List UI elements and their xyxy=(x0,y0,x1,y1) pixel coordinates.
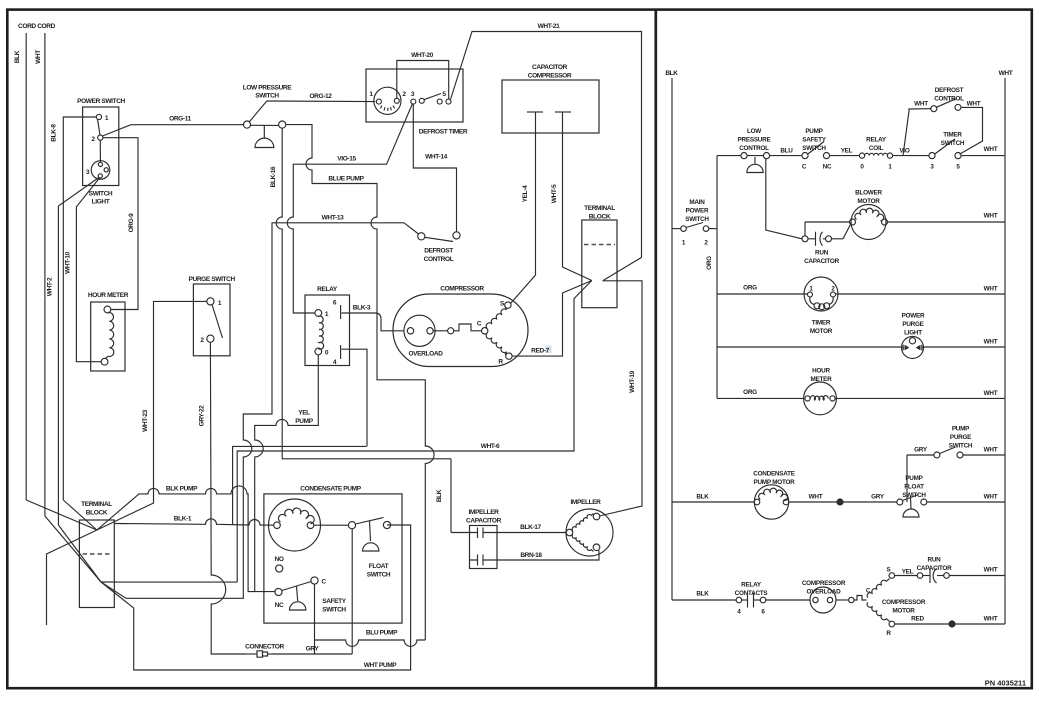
connector symbol xyxy=(246,651,272,657)
purge switch S4 box xyxy=(193,284,230,356)
wire BLK-17 xyxy=(497,532,566,534)
svg-text:BLK-8: BLK-8 xyxy=(51,124,58,142)
svg-text:DEFROST: DEFROST xyxy=(424,248,453,255)
wire BRN-18 xyxy=(497,551,599,561)
terminal block left box xyxy=(79,520,114,608)
svg-text:FLOAT: FLOAT xyxy=(904,484,924,491)
wire WHT-19 xyxy=(600,281,643,516)
power switch U1 box xyxy=(83,107,119,186)
float switch right terminal xyxy=(383,521,390,528)
safety switch bell xyxy=(297,586,298,601)
svg-text:C: C xyxy=(802,164,807,171)
wire BLUE PUMP xyxy=(312,184,434,641)
svg-text:TIMER: TIMER xyxy=(812,320,831,327)
svg-text:ORG: ORG xyxy=(743,285,757,292)
svg-text:BLK-1: BLK-1 xyxy=(174,516,192,523)
svg-text:WHT: WHT xyxy=(914,101,928,108)
wire hour meter rung left xyxy=(717,397,804,399)
wire condensate rung left xyxy=(672,501,754,503)
svg-text:WHT-19: WHT-19 xyxy=(629,370,636,392)
svg-text:BLUE PUMP: BLUE PUMP xyxy=(328,176,364,183)
svg-text:SWITCH: SWITCH xyxy=(322,607,346,614)
svg-text:CORD CORD: CORD CORD xyxy=(18,23,56,30)
svg-text:RELAY: RELAY xyxy=(317,286,338,293)
hour meter M12 xyxy=(804,382,837,415)
low pressure switch S2 xyxy=(243,101,285,148)
wire ORG-12 xyxy=(267,100,376,103)
wire timer motor rung right xyxy=(836,293,1006,295)
blower motor M10 xyxy=(850,205,888,240)
svg-text:RED: RED xyxy=(911,616,924,623)
svg-text:LIGHT: LIGHT xyxy=(904,330,922,337)
hour meter coil xyxy=(101,306,114,365)
svg-text:DEFROST TIMER: DEFROST TIMER xyxy=(419,129,468,136)
svg-text:ORG: ORG xyxy=(743,389,757,396)
svg-text:CONDENSATE: CONDENSATE xyxy=(753,471,794,478)
purge switch blade xyxy=(212,305,223,339)
power switch blade xyxy=(98,119,101,135)
wire from low pressure switch to BLUE PUMP riser xyxy=(286,125,312,184)
timer contact movable xyxy=(419,98,424,103)
svg-text:BLK-3: BLK-3 xyxy=(353,305,371,312)
wire WHT-20 bracket pin2 to pin5 xyxy=(397,61,449,100)
wire contacts to overload xyxy=(766,599,810,601)
svg-text:BLK PUMP: BLK PUMP xyxy=(166,486,198,493)
compressor common C xyxy=(482,328,488,334)
float switch bell xyxy=(370,521,371,542)
wire ORG-11 xyxy=(103,125,245,136)
wire BLK cord diagonal into node P3 xyxy=(26,500,97,530)
svg-text:PRESSURE: PRESSURE xyxy=(738,137,771,144)
svg-text:SWITCH: SWITCH xyxy=(941,140,965,147)
svg-text:SWITCH: SWITCH xyxy=(367,572,391,579)
wire WHT-2 diagonal into node P4 xyxy=(58,525,101,582)
svg-text:CAPACITOR: CAPACITOR xyxy=(804,258,840,265)
svg-text:SAFETY: SAFETY xyxy=(802,137,827,144)
svg-text:LOW: LOW xyxy=(747,128,761,135)
junction dot xyxy=(836,498,843,505)
purge switch pin 2 xyxy=(207,335,214,342)
svg-text:WHT: WHT xyxy=(984,447,998,454)
svg-text:OVERLOAD: OVERLOAD xyxy=(408,351,443,358)
compressor jog xyxy=(454,324,482,331)
relay coil xyxy=(318,316,323,349)
svg-text:BLOCK: BLOCK xyxy=(86,510,108,517)
svg-text:OVERLOAD: OVERLOAD xyxy=(807,589,842,596)
hour meter M1 box xyxy=(91,302,125,371)
wire WHT cord diagonal into node P4 xyxy=(45,516,101,582)
svg-text:C: C xyxy=(477,321,482,328)
svg-text:PUMP: PUMP xyxy=(952,426,970,433)
svg-text:SWITCH: SWITCH xyxy=(255,93,279,100)
svg-text:HOUR: HOUR xyxy=(812,368,830,375)
condensate pump motor xyxy=(269,499,321,551)
wire hour meter rung right xyxy=(835,397,1005,399)
wire purge riser xyxy=(906,455,908,502)
defrost control branch S13 xyxy=(903,99,983,156)
svg-text:RUN: RUN xyxy=(815,250,829,257)
main power switch S10 xyxy=(672,223,717,232)
defrost control switch S3 xyxy=(404,223,460,242)
wire blower to WHT rail xyxy=(888,221,1006,223)
svg-text:NO: NO xyxy=(274,556,283,563)
svg-text:WHT: WHT xyxy=(984,286,998,293)
svg-text:PUMP: PUMP xyxy=(805,128,823,135)
svg-text:WHT: WHT xyxy=(984,494,998,501)
wire rung1 VIO segment xyxy=(893,155,929,157)
wire BLK riser to impeller capacitor xyxy=(450,459,452,533)
wire GRY connector line xyxy=(272,653,353,655)
svg-text:WHT: WHT xyxy=(984,390,998,397)
svg-text:ORG: ORG xyxy=(706,256,713,270)
power switch pin 2 xyxy=(98,135,103,140)
svg-text:METER: METER xyxy=(811,376,833,383)
terminal NC xyxy=(275,588,282,595)
wire condensate rung middle xyxy=(789,501,897,503)
svg-text:BLK: BLK xyxy=(696,494,709,501)
terminal NO xyxy=(276,565,283,572)
svg-text:YEL: YEL xyxy=(902,569,914,576)
wire WHT-10 from lamp to hour meter xyxy=(76,178,101,362)
power purge light DS1 xyxy=(902,337,924,359)
svg-text:WHT-6: WHT-6 xyxy=(481,443,500,450)
svg-text:CONTACTS: CONTACTS xyxy=(735,590,768,597)
svg-text:WHT-13: WHT-13 xyxy=(322,215,344,222)
wire WHT right rail xyxy=(1004,78,1006,624)
svg-text:FLOAT: FLOAT xyxy=(369,563,389,570)
svg-text:RED-7: RED-7 xyxy=(531,348,549,355)
impeller capacitor lower element xyxy=(470,555,498,566)
svg-text:POWER: POWER xyxy=(902,313,925,320)
wire float-left down inside box xyxy=(351,529,353,654)
compressor overload xyxy=(810,587,836,613)
wire compressor rung left xyxy=(672,599,736,601)
blower run capacitor xyxy=(802,222,843,246)
compressor run winding R xyxy=(867,602,890,621)
wire C terminal to GRY line xyxy=(314,584,316,654)
impeller capacitor box xyxy=(470,526,498,569)
svg-text:BLU PUMP: BLU PUMP xyxy=(366,630,398,637)
switch light lamp xyxy=(91,161,110,180)
svg-text:CAPACITOR: CAPACITOR xyxy=(917,565,953,572)
compressor body oval xyxy=(393,294,528,367)
defrost timer T1 box xyxy=(366,69,463,122)
svg-text:BRN-18: BRN-18 xyxy=(520,552,542,559)
timer contact pins 5 xyxy=(437,99,442,104)
svg-text:TIMER: TIMER xyxy=(943,132,962,139)
compressor start winding S xyxy=(867,579,890,598)
wire BLK left rail xyxy=(671,78,673,600)
compressor run winding to R xyxy=(486,333,506,355)
wire WHT-6 xyxy=(237,281,592,583)
svg-text:BLK: BLK xyxy=(436,489,443,502)
wire overload to C xyxy=(836,599,849,601)
svg-text:R: R xyxy=(498,359,503,366)
wire BLU PUMP xyxy=(315,640,426,646)
timer switch S14 xyxy=(929,139,961,159)
svg-text:COMPRESSOR: COMPRESSOR xyxy=(440,286,484,293)
svg-text:WHT: WHT xyxy=(984,567,998,574)
svg-text:R: R xyxy=(886,630,891,637)
svg-text:MOTOR: MOTOR xyxy=(810,328,833,335)
wire WHT-13 xyxy=(101,223,404,599)
svg-text:S: S xyxy=(887,567,891,574)
svg-text:CONTROL: CONTROL xyxy=(739,145,769,152)
timer motor M11 xyxy=(804,277,838,311)
svg-text:GRY: GRY xyxy=(306,646,320,653)
wire BLK-8 diagonal into node P3 xyxy=(63,500,97,530)
junction dot R branch xyxy=(948,620,955,627)
svg-text:CONNECTOR: CONNECTOR xyxy=(245,644,284,651)
wire cap to blower motor xyxy=(843,223,852,239)
overload circle xyxy=(404,315,435,346)
svg-text:COMPRESSOR: COMPRESSOR xyxy=(528,73,572,80)
svg-text:BLK: BLK xyxy=(696,591,709,598)
wire P4 to WHT-6 riser xyxy=(101,581,237,583)
svg-text:MOTOR: MOTOR xyxy=(892,608,915,615)
svg-text:C: C xyxy=(321,579,326,586)
svg-text:WHT-5: WHT-5 xyxy=(551,184,558,203)
purge switch pin 1 xyxy=(207,298,214,305)
wire WHT cord xyxy=(44,33,46,516)
wire WHT-23 xyxy=(97,301,207,530)
svg-text:WHT-23: WHT-23 xyxy=(142,409,149,431)
svg-text:POWER SWITCH: POWER SWITCH xyxy=(77,98,125,105)
pump safety switch S12 xyxy=(802,142,830,159)
wire R branch RED xyxy=(895,623,1005,625)
svg-text:COMPRESSOR: COMPRESSOR xyxy=(802,580,846,587)
terminal block left dashed line xyxy=(83,553,112,555)
svg-text:SAFETY: SAFETY xyxy=(322,598,347,605)
svg-text:RELAY: RELAY xyxy=(741,582,762,589)
terminal block right box xyxy=(582,220,617,308)
pump purge switch S15 xyxy=(907,447,1005,458)
label RED-7 with highlight xyxy=(546,346,552,354)
svg-text:WHT: WHT xyxy=(35,50,42,64)
wire motor to float switch xyxy=(314,524,349,526)
svg-text:ORG-11: ORG-11 xyxy=(169,116,191,123)
relay pin 0 xyxy=(315,348,322,355)
svg-text:HOUR METER: HOUR METER xyxy=(88,292,129,299)
svg-text:SWITCH: SWITCH xyxy=(902,492,926,499)
svg-text:WHT: WHT xyxy=(984,146,998,153)
wire RED-7 xyxy=(512,281,592,357)
wire BLK-8 xyxy=(63,117,96,500)
svg-text:YEL: YEL xyxy=(298,410,310,417)
svg-text:WHT-20: WHT-20 xyxy=(411,52,433,59)
wire WHT-21 xyxy=(451,32,642,281)
svg-text:BLK: BLK xyxy=(14,50,21,63)
timer contact pin 3 xyxy=(411,99,416,104)
wire condensate rung right xyxy=(927,501,1005,503)
svg-text:CONTROL: CONTROL xyxy=(424,256,454,263)
float switch left terminal xyxy=(348,522,355,529)
svg-text:IMPELLER: IMPELLER xyxy=(468,509,499,516)
svg-text:YEL-4: YEL-4 xyxy=(522,185,529,202)
capacitor compressor C1 box xyxy=(502,80,599,133)
wire H1 riser from BLK-1 up and over to WHT-6 xyxy=(233,446,367,525)
wire BLU node down to run capacitor xyxy=(766,159,802,239)
svg-text:TERMINAL: TERMINAL xyxy=(81,501,112,508)
svg-text:RELAY: RELAY xyxy=(866,137,887,144)
svg-text:SWITCH: SWITCH xyxy=(685,216,709,223)
wire rung1 to WHT rail xyxy=(961,155,1005,157)
svg-text:WHT-21: WHT-21 xyxy=(538,23,560,30)
wire GRY-22 with big hop xyxy=(210,342,246,654)
terminal C xyxy=(311,577,318,584)
svg-text:WHT: WHT xyxy=(967,101,981,108)
svg-text:PUMP: PUMP xyxy=(905,475,923,482)
wire BLK cord xyxy=(25,33,27,500)
svg-text:SWITCH: SWITCH xyxy=(89,191,113,198)
wire YEL PUMP from relay pin0 xyxy=(255,355,319,592)
svg-text:BLK: BLK xyxy=(665,70,678,77)
wire timer motor rung left xyxy=(717,293,808,295)
svg-text:BLOCK: BLOCK xyxy=(589,214,611,221)
wire WHT-14 pin3 down to defrost control xyxy=(413,104,456,232)
svg-text:CONDENSATE PUMP: CONDENSATE PUMP xyxy=(300,486,361,493)
svg-text:PN 4035211: PN 4035211 xyxy=(985,679,1026,688)
svg-text:DEFROST: DEFROST xyxy=(935,87,964,94)
wire BLK-3 relay to overload xyxy=(342,313,405,331)
svg-text:LIGHT: LIGHT xyxy=(92,199,110,206)
wire BLK-16 vertical with hop over WHT-13 xyxy=(276,128,451,459)
svg-text:PURGE SWITCH: PURGE SWITCH xyxy=(189,276,236,283)
wire YEL-4 (cap to compressor S) xyxy=(511,112,536,304)
svg-text:PURGE: PURGE xyxy=(902,321,923,328)
impeller motor xyxy=(566,509,613,556)
wire WHT-5 (cap to terminal block) xyxy=(563,112,592,281)
svg-text:COIL: COIL xyxy=(869,145,884,152)
relay coil L1 xyxy=(859,153,892,158)
relay contacts K1b xyxy=(736,593,766,608)
svg-text:IMPELLER: IMPELLER xyxy=(570,499,601,506)
float switch blade xyxy=(356,518,384,525)
wire WHT PUMP xyxy=(101,525,411,670)
wire BLK-1 xyxy=(114,519,273,525)
wire WHT-2 from lamp xyxy=(58,178,98,526)
compressor start winding to S xyxy=(486,307,506,329)
impeller capacitor upper element xyxy=(470,528,498,539)
svg-text:WHT: WHT xyxy=(999,70,1013,77)
wire ORG-9 pin2 to hour meter xyxy=(103,138,138,310)
svg-text:CAPACITOR: CAPACITOR xyxy=(466,518,502,525)
svg-text:PUMP MOTOR: PUMP MOTOR xyxy=(754,479,796,486)
compressor internal wire and junction xyxy=(433,330,447,332)
wire from relay contact 4 to junction H1 xyxy=(342,349,368,446)
svg-text:LOW PRESSURE: LOW PRESSURE xyxy=(243,85,293,92)
svg-text:TERMINAL: TERMINAL xyxy=(584,205,615,212)
svg-text:VIO-15: VIO-15 xyxy=(337,156,356,163)
wire VIO-15 diagonal and horizontal with riser to relay pin1 xyxy=(287,104,412,313)
wire BLK PUMP xyxy=(97,486,255,592)
run capacitor (compressor) xyxy=(895,569,1005,584)
svg-text:PUMP: PUMP xyxy=(295,418,313,425)
safety switch blade xyxy=(282,582,311,591)
svg-text:NC: NC xyxy=(823,164,832,171)
svg-text:ORG-12: ORG-12 xyxy=(309,93,332,100)
svg-text:WHT: WHT xyxy=(984,213,998,220)
svg-text:SWITCH: SWITCH xyxy=(949,443,973,450)
wire light rung right xyxy=(901,347,924,349)
svg-text:BLU: BLU xyxy=(780,148,793,155)
svg-text:NC: NC xyxy=(275,602,284,609)
svg-text:PURGE: PURGE xyxy=(950,434,971,441)
wire light rung left xyxy=(717,346,902,348)
capacitor plates xyxy=(527,111,543,113)
relay K1 box xyxy=(305,295,350,366)
svg-text:SWITCH: SWITCH xyxy=(802,145,826,152)
wire rung1 BLU segment xyxy=(770,155,802,157)
svg-text:COMPRESSOR: COMPRESSOR xyxy=(882,599,926,606)
svg-text:MOTOR: MOTOR xyxy=(857,198,880,205)
terminal block right dashed line xyxy=(584,244,615,246)
svg-text:CAPACITOR: CAPACITOR xyxy=(532,64,568,71)
condensate pump motor M13 xyxy=(754,485,789,519)
panel divider xyxy=(654,10,657,689)
svg-text:GRY: GRY xyxy=(871,494,885,501)
svg-text:MAIN: MAIN xyxy=(689,199,705,206)
svg-text:WHT-10: WHT-10 xyxy=(65,251,72,273)
svg-text:YEL: YEL xyxy=(841,148,853,155)
svg-text:ORG-9: ORG-9 xyxy=(128,213,135,233)
svg-text:WHT: WHT xyxy=(809,494,823,501)
svg-text:POWER: POWER xyxy=(686,208,709,215)
low pressure control S11 xyxy=(741,153,770,173)
svg-text:VIO: VIO xyxy=(899,148,909,155)
svg-text:RUN: RUN xyxy=(928,557,942,564)
power switch pin 1 xyxy=(96,114,101,119)
svg-text:WHT-2: WHT-2 xyxy=(47,277,54,296)
wire ORG riser xyxy=(716,156,718,399)
wire from node P3 down-left xyxy=(47,530,97,625)
wire rung1 YEL segment xyxy=(830,155,860,157)
condensate pump box xyxy=(264,494,402,623)
svg-text:WHT-14: WHT-14 xyxy=(425,154,447,161)
svg-text:CONTROL: CONTROL xyxy=(934,96,964,103)
svg-text:GRY-22: GRY-22 xyxy=(199,405,206,427)
wire pin2 to lamp xyxy=(99,140,101,162)
svg-text:WHT: WHT xyxy=(984,616,998,623)
svg-text:BLOWER: BLOWER xyxy=(855,190,882,197)
relay pin 1 xyxy=(315,310,322,317)
svg-text:WHT PUMP: WHT PUMP xyxy=(364,662,398,669)
rung 1 left segment xyxy=(717,155,741,157)
defrost timer motor circle xyxy=(374,87,401,114)
svg-text:WHT: WHT xyxy=(984,339,998,346)
svg-text:BLK-17: BLK-17 xyxy=(520,524,541,531)
svg-text:GRY: GRY xyxy=(914,447,928,454)
pump float switch S16 xyxy=(897,495,927,518)
svg-text:BLK-16: BLK-16 xyxy=(270,166,277,187)
